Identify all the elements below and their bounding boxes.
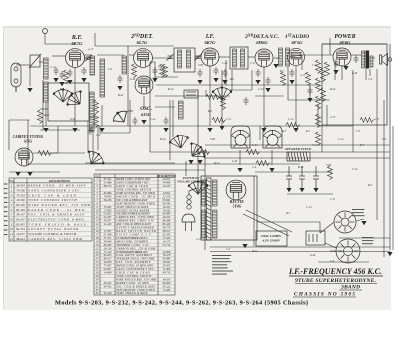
- svg-text:RECTIF.: RECTIF.: [230, 200, 244, 204]
- svg-text:R-7: R-7: [279, 70, 285, 73]
- svg-text:C-9: C-9: [368, 78, 373, 81]
- svg-text:75-319: 75-319: [16, 193, 25, 197]
- tube V2 2nd DET 6L7G: [134, 49, 153, 68]
- svg-text:6-40: 6-40: [232, 160, 238, 163]
- wire v35: [231, 70, 233, 90]
- capacitor C18: [308, 87, 313, 95]
- electrolytic capacitor C40: [288, 166, 290, 176]
- capacitor C15: [88, 127, 93, 135]
- svg-text:7-11: 7-11: [330, 198, 336, 201]
- svg-text:C-3: C-3: [356, 130, 361, 133]
- svg-text:TUBE SHIELD & BASE: TUBE SHIELD & BASE: [116, 292, 148, 295]
- dial lamps box: [256, 231, 287, 246]
- wire v32: [317, 105, 319, 126]
- svg-text:6K7G: 6K7G: [205, 40, 217, 45]
- svg-text:6-40: 6-40: [352, 72, 358, 75]
- capacitor C9: [214, 67, 219, 75]
- variable capacitor C1A: [53, 89, 73, 102]
- band switch fan S1B: [110, 107, 131, 127]
- svg-text:C-21: C-21: [352, 168, 358, 171]
- variable capacitor C1C osc section: [212, 87, 232, 100]
- resistor R18: [212, 118, 226, 123]
- wire v6: [204, 150, 206, 250]
- wire v19: [143, 96, 145, 108]
- power transformer secondary: [213, 210, 218, 238]
- cable diagonal d1: [243, 214, 289, 236]
- wire v51: [29, 67, 31, 86]
- wire v41: [15, 86, 17, 92]
- tuning gang box: [48, 83, 89, 121]
- wire v29: [221, 70, 223, 88]
- wire h29: [210, 251, 390, 253]
- wire v33: [326, 105, 328, 126]
- resistor R21: [38, 110, 43, 124]
- electrolytic capacitor C41: [301, 166, 303, 176]
- wire h50: [52, 152, 85, 154]
- ground g16: [222, 80, 227, 84]
- parts table center: [94, 174, 175, 295]
- label speaker socket: [362, 237, 374, 238]
- speaker socket view 2: [336, 239, 360, 263]
- notes column voltages: [212, 255, 231, 256]
- svg-text:7-11: 7-11: [312, 144, 318, 147]
- ground g27: [237, 168, 242, 172]
- wire h15: [373, 57, 375, 59]
- svg-text:6-40: 6-40: [130, 78, 136, 81]
- capacitor C17: [244, 97, 249, 105]
- wire h19: [155, 95, 230, 97]
- svg-text:19-346: 19-346: [16, 198, 25, 202]
- cable diagonal d0: [246, 210, 292, 232]
- wire h14: [351, 54, 361, 56]
- wire v0: [392, 126, 394, 250]
- wire v14: [74, 68, 76, 126]
- wire v25: [185, 161, 187, 176]
- parts table left: [9, 178, 92, 241]
- tube V5 1st AUDIO 6F5G: [287, 48, 304, 65]
- wire h45: [257, 221, 320, 223]
- capacitor C6: [118, 75, 123, 83]
- wire h48: [85, 162, 175, 164]
- ground g1: [27, 88, 32, 92]
- wire v42: [365, 69, 367, 80]
- resistor R9: [325, 62, 330, 76]
- svg-text:3-85: 3-85: [198, 64, 204, 67]
- svg-text:R-7: R-7: [359, 144, 365, 147]
- wire v4: [352, 70, 354, 152]
- ground g6: [43, 128, 48, 132]
- wire h41: [255, 171, 332, 173]
- svg-text:R-22: R-22: [329, 88, 336, 91]
- svg-text:SPEAKER FIELD: SPEAKER FIELD: [285, 147, 312, 151]
- tube V4 2nd DET AVC 6H6G: [255, 49, 273, 67]
- svg-text:R-22: R-22: [117, 94, 124, 97]
- svg-text:R-22: R-22: [43, 114, 50, 117]
- wire h31: [322, 43, 387, 45]
- wave trap box: [30, 55, 40, 67]
- svg-text:DESCRIPTION: DESCRIPTION: [48, 179, 71, 183]
- svg-text:Models 9-S-203, 9-S-232, 9-S-2: Models 9-S-203, 9-S-232, 9-S-242, 9-S-24…: [55, 300, 308, 307]
- svg-text:4-17: 4-17: [88, 48, 94, 51]
- tube V3 I.F. 6K7G: [201, 48, 219, 66]
- svg-text:83-226: 83-226: [16, 203, 25, 207]
- wire h5: [97, 54, 124, 56]
- svg-text:VOLUME CONTROL & SWITCH: VOLUME CONTROL & SWITCH: [28, 232, 77, 236]
- ground g32: [242, 244, 247, 248]
- ground g4: [67, 80, 72, 84]
- svg-text:PAPER COND. .05 MFD 400V: PAPER COND. .05 MFD 400V: [27, 184, 86, 188]
- svg-text:C-9: C-9: [96, 134, 101, 137]
- wire v7: [197, 90, 199, 195]
- IF transformer T2: [230, 47, 248, 69]
- power transformer primary: [213, 180, 218, 206]
- wire h30: [318, 261, 369, 263]
- wire h44: [330, 250, 336, 252]
- tube V1 R.F. 6K7G: [66, 49, 85, 68]
- capacitor C19: [266, 77, 271, 85]
- svg-text:6-40: 6-40: [310, 254, 316, 257]
- svg-text:C-21: C-21: [252, 144, 258, 147]
- wire h35: [230, 89, 252, 91]
- svg-text:6-40: 6-40: [70, 118, 76, 121]
- wire h46: [339, 237, 390, 239]
- wire v50: [91, 126, 93, 131]
- ground g29: [387, 252, 392, 256]
- wire h23: [150, 151, 390, 153]
- detector diode load R-C: [279, 48, 283, 66]
- resistor R17: [321, 88, 326, 102]
- svg-text:C-3: C-3: [382, 138, 387, 141]
- wire v43: [369, 69, 371, 76]
- ground under C41: [299, 188, 304, 192]
- wire v3: [376, 69, 378, 220]
- range switch wafer S3: [264, 130, 282, 147]
- resistor R25: [163, 64, 168, 78]
- tone switch box: [231, 126, 250, 148]
- ground g8: [99, 128, 104, 132]
- svg-text:6H6G: 6H6G: [256, 40, 268, 45]
- resistor R15: [94, 114, 99, 128]
- power transformer assembly box: [201, 176, 257, 240]
- wire h11: [273, 57, 280, 59]
- wire v13: [329, 38, 331, 55]
- svg-text:C-12: C-12: [258, 88, 264, 91]
- wire h20: [30, 125, 353, 127]
- on-off switch fan on volume control: [188, 181, 208, 194]
- resistor R26: [206, 95, 220, 100]
- svg-text:R-7: R-7: [285, 212, 291, 215]
- wire h0: [16, 64, 30, 66]
- resistor R8: [316, 60, 321, 74]
- svg-text:4-17: 4-17: [374, 118, 380, 121]
- wire v47: [99, 126, 101, 133]
- wire h1: [39, 61, 43, 63]
- svg-text:R-5: R-5: [229, 78, 235, 81]
- capacitor C4: [68, 69, 73, 77]
- svg-text:4-17: 4-17: [330, 116, 336, 119]
- wire h25: [205, 157, 390, 159]
- resistor R10: [316, 78, 321, 92]
- wire h22: [33, 152, 58, 154]
- RF plate coil L4: [90, 56, 95, 75]
- svg-text:6F5G: 6F5G: [292, 40, 304, 45]
- wire h9: [218, 56, 230, 58]
- wire h24: [205, 144, 390, 146]
- antenna terminal: [43, 29, 48, 34]
- ground under C42: [313, 188, 318, 192]
- svg-text:3BAND: 3BAND: [340, 285, 360, 291]
- padder trimmer box: [184, 90, 198, 98]
- wire v31: [57, 126, 59, 153]
- svg-text:C-9: C-9: [158, 66, 163, 69]
- capacitor C12: [290, 69, 295, 77]
- wire v11: [8, 120, 10, 150]
- svg-text:R-5: R-5: [207, 110, 213, 113]
- wire v1: [389, 44, 391, 250]
- capacitor C10: [223, 69, 228, 77]
- T1 trimmer left: [167, 54, 174, 61]
- svg-text:C-21: C-21: [150, 118, 156, 121]
- band switch fan S1A: [83, 147, 107, 170]
- svg-text:WIRE WOUND RES. 350 OHM: WIRE WOUND RES. 350 OHM: [28, 203, 90, 207]
- T1 trimmer right: [195, 54, 202, 61]
- capacitor C11: [256, 69, 261, 77]
- svg-text:82-935: 82-935: [16, 222, 25, 226]
- wire h17: [155, 76, 178, 78]
- wire v20: [45, 102, 47, 126]
- svg-text:4-17: 4-17: [300, 74, 306, 77]
- svg-text:3-85: 3-85: [326, 164, 332, 167]
- wire v23: [239, 150, 241, 165]
- ground g19: [273, 64, 278, 68]
- resistor R5: [221, 96, 226, 110]
- ground g7: [72, 128, 77, 132]
- wire h8: [195, 56, 201, 58]
- wire v49: [42, 80, 44, 130]
- svg-text:SOCKET OCTAL WAFER: SOCKET OCTAL WAFER: [28, 227, 78, 231]
- wire v53: [87, 121, 89, 152]
- resistor R13: [316, 132, 321, 146]
- wire h26: [28, 163, 300, 165]
- ground g15: [213, 78, 218, 82]
- resistor R3: [196, 150, 210, 155]
- wire v17: [295, 66, 297, 126]
- label speaker plug: [352, 209, 364, 210]
- wire h21: [9, 119, 30, 121]
- ground g5: [81, 78, 86, 82]
- wire v10: [27, 120, 29, 165]
- svg-text:6L7G: 6L7G: [137, 40, 148, 45]
- svg-text:4-17: 4-17: [196, 238, 202, 241]
- svg-text:R-14: R-14: [89, 116, 96, 119]
- ground g20: [289, 80, 294, 84]
- svg-text:11-249: 11-249: [104, 223, 112, 226]
- wire h2: [45, 43, 75, 45]
- wire v26: [253, 176, 255, 246]
- capacitor C2: [54, 67, 59, 75]
- capacitor C14: [354, 55, 359, 63]
- svg-text:98-644: 98-644: [16, 237, 25, 241]
- ground under C40: [286, 188, 291, 192]
- svg-text:10: 10: [10, 227, 14, 231]
- svg-text:6K7G: 6K7G: [72, 41, 84, 46]
- ground below band switch 2: [197, 160, 202, 164]
- wire v38: [301, 55, 303, 70]
- band switch fan S1C: [168, 133, 191, 151]
- resistor R22: [64, 70, 69, 84]
- ground g23: [333, 70, 338, 74]
- wire v37: [287, 66, 289, 100]
- svg-text:C-9: C-9: [252, 166, 257, 169]
- wire v27: [169, 100, 171, 160]
- RF coupling coil L7: [122, 56, 127, 74]
- svg-text:TONE CONTROL SWITCH: TONE CONTROL SWITCH: [28, 198, 77, 202]
- resistor R24: [132, 64, 137, 78]
- ground g14: [207, 128, 212, 132]
- wire h36: [255, 95, 284, 97]
- margin row numbers: [4, 184, 7, 236]
- resistor R12: [316, 114, 321, 128]
- wire v44: [205, 90, 207, 96]
- RF plate trimmer: [85, 55, 92, 62]
- svg-text:12: 12: [10, 237, 14, 241]
- svg-text:R-22: R-22: [251, 250, 258, 253]
- svg-text:R-5: R-5: [367, 184, 373, 187]
- wire v48: [319, 222, 321, 233]
- svg-text:TUBE SHIELD & BASE: TUBE SHIELD & BASE: [28, 222, 86, 226]
- svg-text:72-282: 72-282: [163, 289, 171, 292]
- resistor R1: [38, 151, 52, 156]
- ground g11: [152, 78, 157, 82]
- svg-text:C-3: C-3: [108, 68, 113, 71]
- scan edge shading: [4, 26, 390, 28]
- svg-text:84-754: 84-754: [16, 227, 25, 231]
- ground g2: [53, 78, 58, 82]
- wire h6: [129, 54, 134, 56]
- wire v36: [251, 70, 253, 90]
- svg-text:GRID CAP & LEAD: GRID CAP & LEAD: [28, 193, 76, 197]
- wire h33: [45, 29, 47, 31]
- wire h12: [289, 55, 302, 57]
- wire v21: [101, 105, 103, 126]
- speaker top right: [380, 55, 382, 64]
- wire h34: [150, 61, 155, 63]
- RF cathode coil L3: [44, 82, 49, 102]
- wire h28: [210, 246, 390, 248]
- svg-text:R-14: R-14: [167, 88, 174, 91]
- svg-text:14-909: 14-909: [104, 272, 112, 275]
- oscillator coil L5: [100, 59, 105, 97]
- output transformer T4: [362, 51, 365, 68]
- wire h10: [248, 56, 255, 58]
- variable capacitor C1B: [64, 88, 88, 112]
- power transformer T5 core: [207, 178, 212, 240]
- cable diagonal d2: [325, 243, 336, 248]
- svg-text:96-166: 96-166: [104, 199, 112, 202]
- svg-text:19-677: 19-677: [16, 232, 25, 236]
- ground g30: [219, 126, 224, 130]
- svg-text:C-3: C-3: [226, 248, 231, 251]
- wire v45: [259, 126, 261, 140]
- tone switch wafer S2: [232, 130, 250, 147]
- ground g21: [293, 128, 298, 132]
- tube V6 POWER 6F6G: [333, 48, 351, 66]
- resistor R14: [94, 100, 99, 114]
- wire v9: [127, 46, 129, 126]
- ground g9: [117, 86, 122, 90]
- wire v12: [94, 33, 96, 46]
- resistor R4: [328, 166, 333, 180]
- svg-text:99-719: 99-719: [163, 272, 171, 275]
- wire v52: [44, 33, 46, 44]
- wire v15: [209, 66, 211, 126]
- svg-text:3-85: 3-85: [210, 138, 216, 141]
- svg-text:7-11: 7-11: [226, 118, 232, 121]
- wire v16: [263, 67, 265, 126]
- resistor R7: [306, 72, 311, 86]
- capacitor C13: [334, 59, 339, 67]
- speaker socket view 1: [334, 211, 356, 233]
- ground g18: [261, 128, 266, 132]
- svg-text:C-12: C-12: [306, 206, 312, 209]
- ground g3: [59, 82, 64, 86]
- svg-text:54-255: 54-255: [163, 185, 171, 188]
- wire h43: [320, 222, 334, 233]
- resistor R11: [316, 96, 321, 110]
- svg-text:94-452: 94-452: [104, 285, 112, 288]
- capacitor C7: [153, 67, 158, 75]
- ground below band switch: [188, 160, 193, 164]
- wire h42: [287, 193, 333, 195]
- electrolytic capacitor C42: [315, 166, 317, 176]
- svg-text:I.F.-FREQUENCY 456 K.C.: I.F.-FREQUENCY 456 K.C.: [288, 267, 382, 276]
- wire h16: [95, 45, 174, 47]
- ground g12: [163, 128, 168, 132]
- svg-text:OSC. COIL & SHIELD ASSY: OSC. COIL & SHIELD ASSY: [28, 213, 84, 217]
- wire h40: [9, 171, 60, 173]
- svg-text:9TUBE SUPERHETERODYNE.: 9TUBE SUPERHETERODYNE.: [295, 278, 376, 284]
- wire h18: [156, 84, 320, 86]
- tube V8 RECTIFIER 5Y4G: [226, 180, 246, 200]
- svg-text:64-247: 64-247: [16, 218, 25, 222]
- wire h27: [95, 169, 205, 171]
- tube V7 CABINET TUNING 6J5G: [15, 148, 33, 166]
- svg-text:5Y4G: 5Y4G: [233, 205, 242, 209]
- svg-text:CARBON RES. 51000 OHM: CARBON RES. 51000 OHM: [28, 237, 82, 241]
- wire v34: [154, 62, 156, 78]
- antenna coil secondary L2: [44, 58, 49, 79]
- wire v30: [225, 60, 227, 85]
- wire v55: [97, 126, 99, 150]
- svg-text:R-7: R-7: [59, 88, 65, 91]
- svg-text:R-14: R-14: [159, 138, 166, 141]
- resistor R2: [160, 64, 165, 78]
- wire h49: [40, 108, 48, 110]
- wire h13: [302, 54, 333, 56]
- ground g10: [141, 120, 146, 124]
- svg-text:39-147: 39-147: [16, 213, 25, 217]
- svg-text:R-7: R-7: [305, 130, 311, 133]
- wire v5: [321, 125, 323, 152]
- wire h3: [52, 55, 66, 57]
- oscillator tickler L6: [90, 92, 95, 131]
- wire h7: [152, 57, 174, 59]
- wire v2: [383, 100, 385, 257]
- svg-text:PAPER COND. .01 MFD: PAPER COND. .01 MFD: [27, 208, 85, 212]
- svg-text:30-504: 30-504: [16, 184, 25, 188]
- svg-text:85-163: 85-163: [16, 208, 25, 212]
- svg-text:55-716: 55-716: [163, 244, 171, 247]
